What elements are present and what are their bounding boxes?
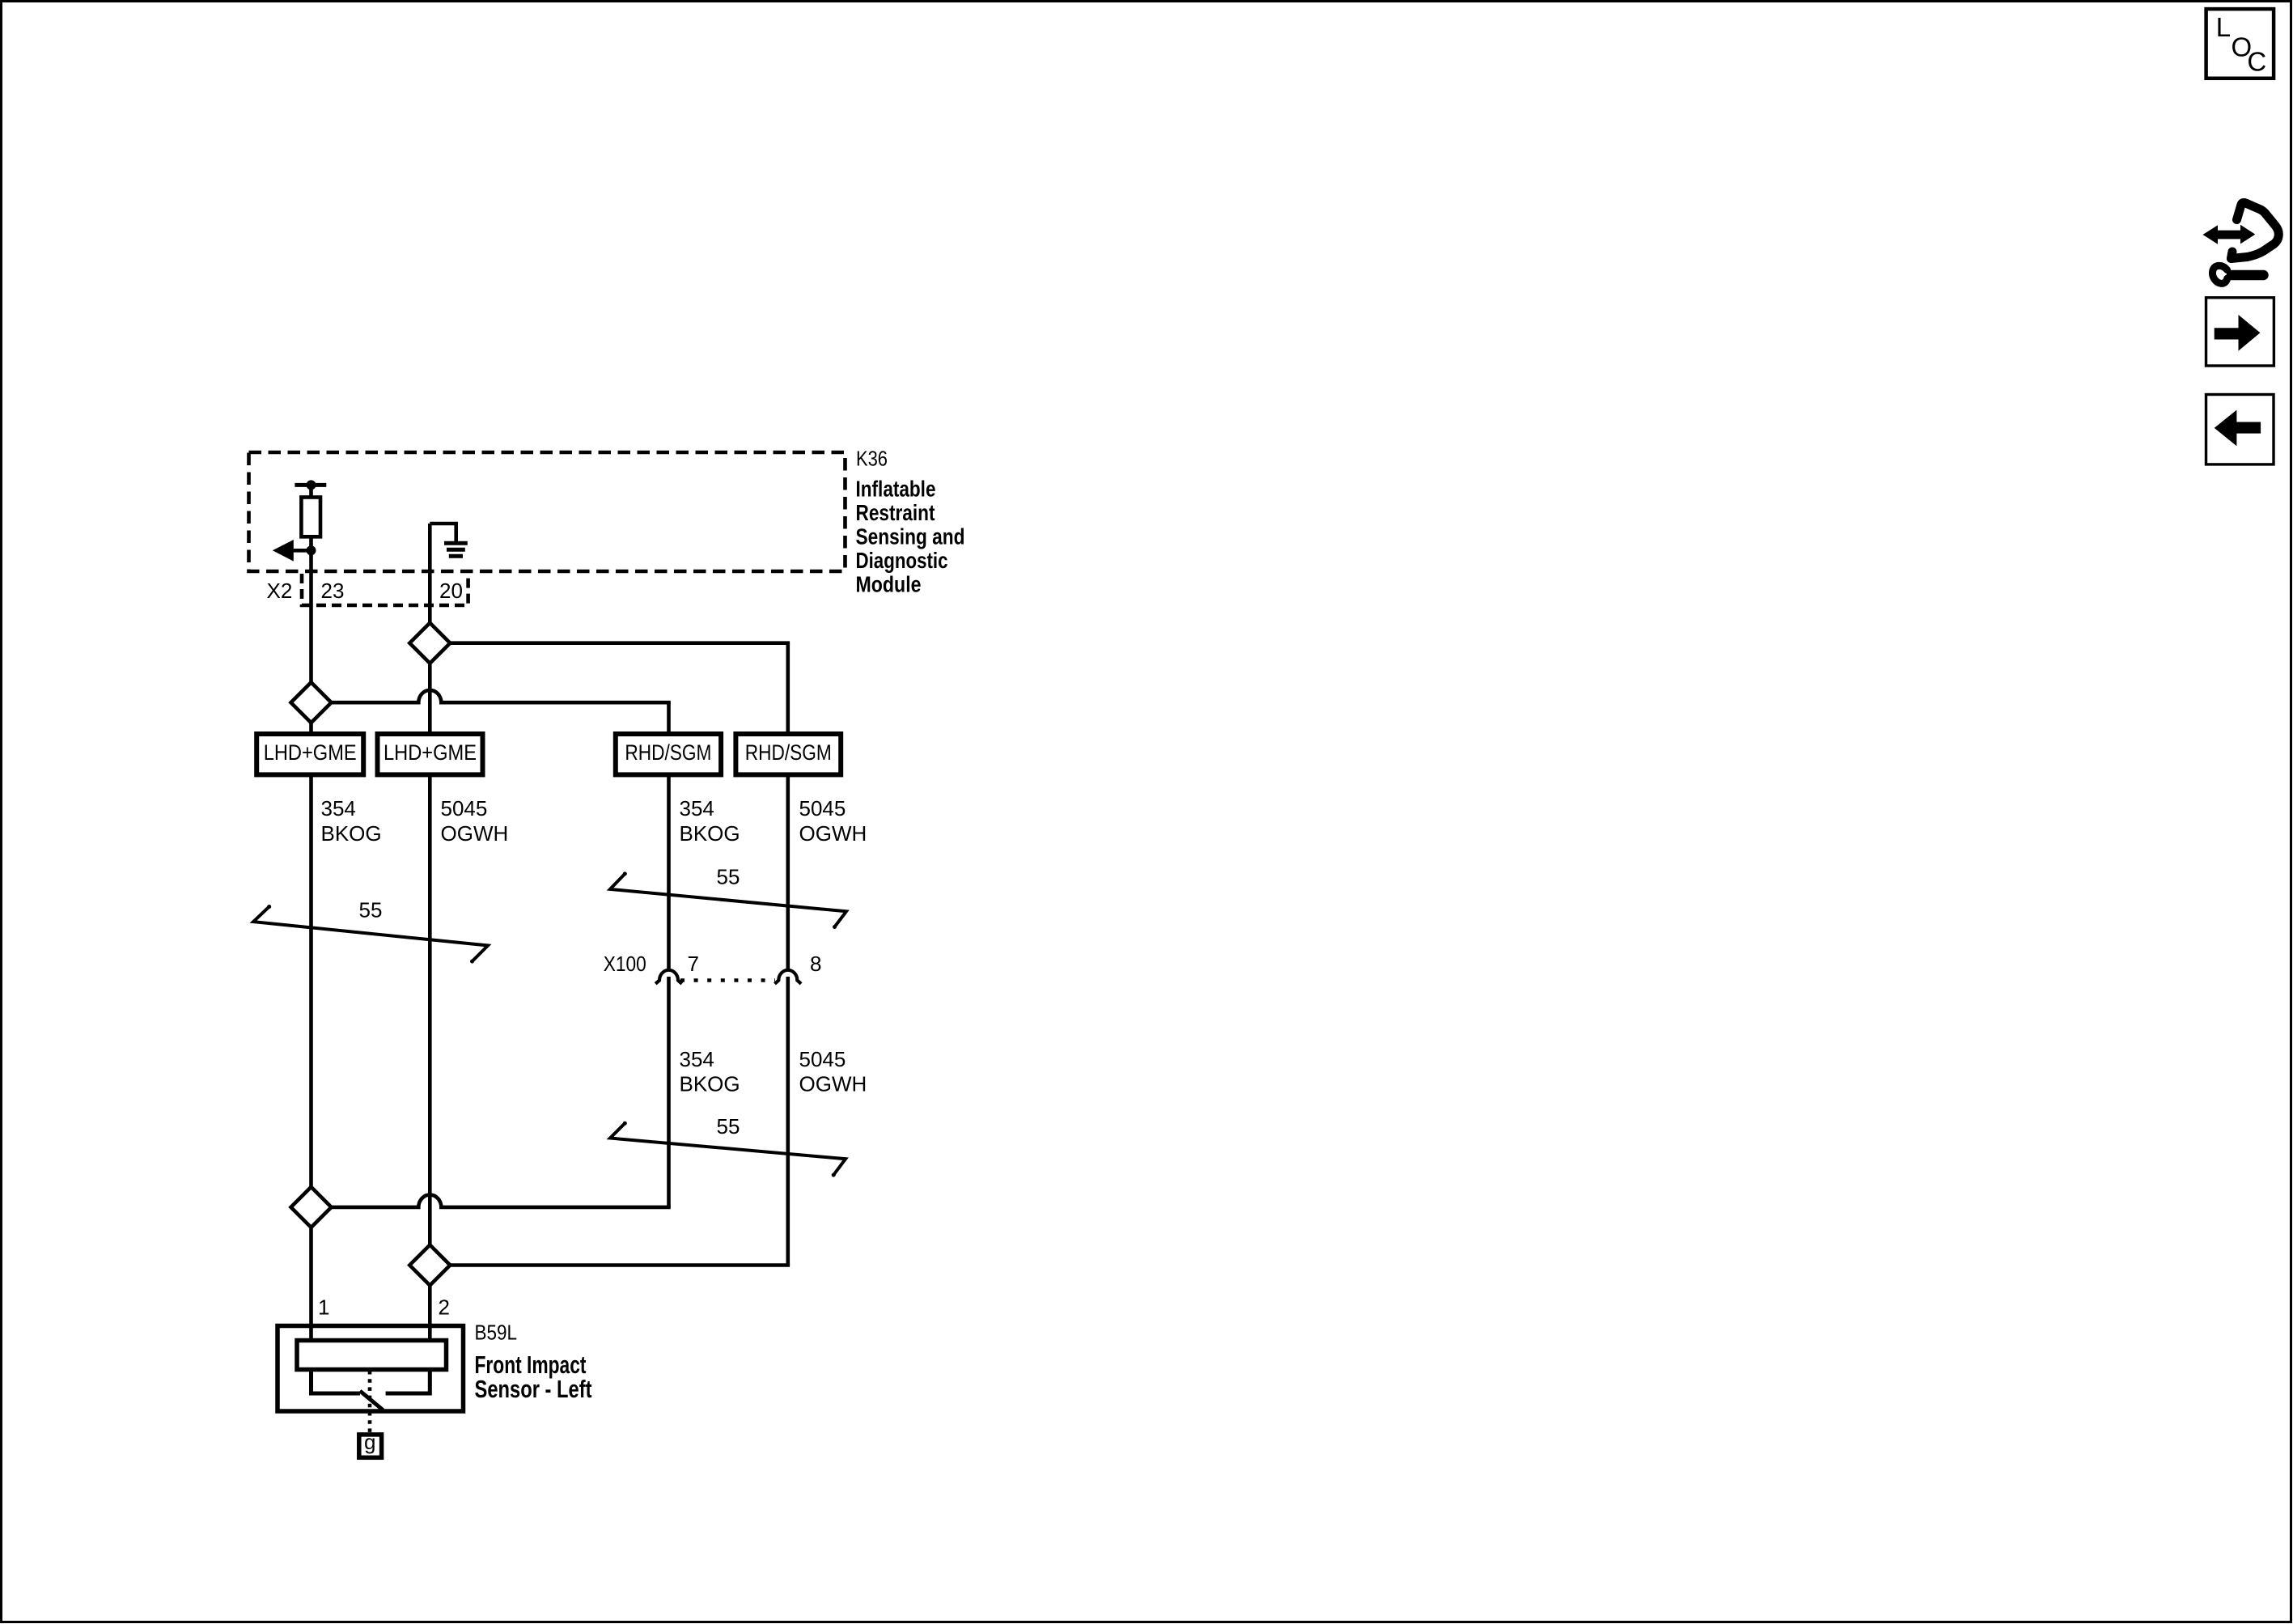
svg-text:BKOG: BKOG [680, 1071, 740, 1096]
splice diamond D4 [409, 1245, 450, 1286]
sensor internal stub left [312, 1370, 360, 1394]
squiggle stroke [2232, 202, 2279, 258]
nav icon: double-headed arrow with squiggle [2203, 202, 2279, 283]
wire W3 (RHD/SGM 354 rail) upper segment [667, 702, 671, 970]
splice diamond D2 [291, 682, 332, 723]
internal ground connection: L-wire [430, 524, 456, 541]
svg-text:Module: Module [856, 572, 922, 597]
svg-text:BKOG: BKOG [321, 821, 382, 846]
lower bar left curl [2212, 265, 2227, 283]
svg-text:2: 2 [439, 1295, 450, 1320]
variant box RHD/SGM (wire 3) [616, 734, 721, 774]
connector X2 dashed outline [302, 574, 468, 605]
right arrow glyph [2215, 315, 2261, 351]
svg-text:g: g [364, 1430, 375, 1454]
wire branch B3 from splice D3 to W3 with hop over W2 [328, 1195, 671, 1207]
squiggle left hook [2232, 252, 2233, 259]
wire W2 (circuit 5045, pin 20 to sensor pin 2) [428, 524, 432, 1341]
sensor internal stub right [386, 1370, 430, 1394]
nav button: right arrow box [2206, 298, 2274, 366]
nav button: left arrow box [2206, 395, 2274, 464]
svg-text:55: 55 [359, 898, 383, 922]
svg-text:5045: 5045 [799, 1047, 846, 1071]
variant box LHD+GME (wire 1) [256, 734, 363, 774]
svg-text:X100: X100 [604, 952, 646, 976]
svg-text:OGWH: OGWH [441, 821, 509, 846]
wire branch B2 from splice D2 to W3 with hop over W2 [328, 690, 671, 702]
lower bar [2232, 270, 2264, 281]
wire W4 (RHD/SGM 5045 rail) upper segment [786, 643, 790, 970]
junction dot below resistor [307, 545, 316, 555]
sensor switch blade [360, 1391, 383, 1410]
svg-text:K36: K36 [856, 447, 888, 471]
svg-text:BKOG: BKOG [680, 821, 740, 846]
svg-text:20: 20 [439, 579, 463, 603]
in-line connector X100 half (wire 4) [775, 970, 802, 984]
svg-text:55: 55 [717, 865, 740, 889]
wire W4 lower segment [786, 977, 790, 1266]
svg-text:354: 354 [680, 1047, 714, 1071]
double arrow [2203, 225, 2256, 244]
splice diamond D1 [409, 623, 450, 664]
svg-text:8: 8 [810, 952, 821, 976]
svg-text:C: C [2247, 47, 2266, 77]
junction dot at terminal bar [307, 480, 316, 490]
splice diamond D3 [291, 1187, 332, 1228]
wire branch B1 from splice D1 to W4 [447, 641, 790, 645]
K36 module dashed box [249, 452, 846, 571]
wire W1 (circuit 354, pin 23 to sensor pin 1) [309, 485, 313, 1340]
variant box RHD/SGM (wire 4) [735, 734, 841, 774]
svg-text:Sensing and: Sensing and [856, 524, 965, 549]
svg-text:X2: X2 [267, 579, 293, 603]
svg-text:5045: 5045 [441, 796, 488, 820]
svg-text:Diagnostic: Diagnostic [856, 548, 948, 573]
svg-text:Sensor - Left: Sensor - Left [475, 1375, 592, 1403]
ground symbol bar 3 [449, 554, 463, 558]
sensor actuation dotted line [368, 1371, 372, 1434]
svg-text:7: 7 [688, 952, 699, 976]
svg-text:354: 354 [680, 796, 714, 820]
svg-text:1: 1 [318, 1295, 329, 1320]
svg-text:OGWH: OGWH [799, 1071, 867, 1096]
LOC legend box [2206, 9, 2274, 78]
svg-text:23: 23 [321, 579, 345, 603]
svg-text:LHD+GME: LHD+GME [264, 740, 357, 765]
ground symbol bar 2 [447, 548, 465, 552]
svg-text:L: L [2216, 12, 2231, 42]
variant box LHD+GME (wire 2) [378, 734, 483, 774]
svg-text:LHD+GME: LHD+GME [384, 740, 477, 765]
svg-text:RHD/SGM: RHD/SGM [745, 740, 832, 765]
svg-text:Inflatable: Inflatable [856, 477, 936, 502]
X100 dotted mating line [680, 978, 775, 982]
resistor (internal) [301, 498, 320, 537]
harness marker 55 (left, over W1/W2) [253, 905, 488, 964]
internal terminal bar on W1 [295, 483, 326, 487]
B59L sensor outer box [278, 1326, 464, 1412]
wire branch B4 from splice D4 to W4 [447, 1263, 790, 1267]
svg-text:5045: 5045 [799, 796, 846, 820]
svg-text:OGWH: OGWH [799, 821, 867, 846]
ground g box [359, 1435, 382, 1457]
left arrow glyph [2215, 410, 2261, 447]
ground symbol bar 1 [444, 541, 468, 545]
svg-text:55: 55 [717, 1114, 740, 1138]
svg-text:B59L: B59L [475, 1320, 518, 1344]
svg-text:RHD/SGM: RHD/SGM [625, 740, 711, 765]
wire W3 lower segment [667, 977, 671, 1207]
svg-text:354: 354 [321, 796, 356, 820]
in-line connector X100 half (wire 3) [655, 970, 682, 984]
harness marker 55 (lower right, over W3/W4) [610, 1122, 846, 1177]
svg-text:Restraint: Restraint [856, 500, 935, 525]
B59L sensor element rectangle [297, 1341, 447, 1370]
harness marker 55 (upper right, over W3/W4) [610, 871, 846, 929]
internal left-pointing continuation arrow [291, 549, 312, 553]
